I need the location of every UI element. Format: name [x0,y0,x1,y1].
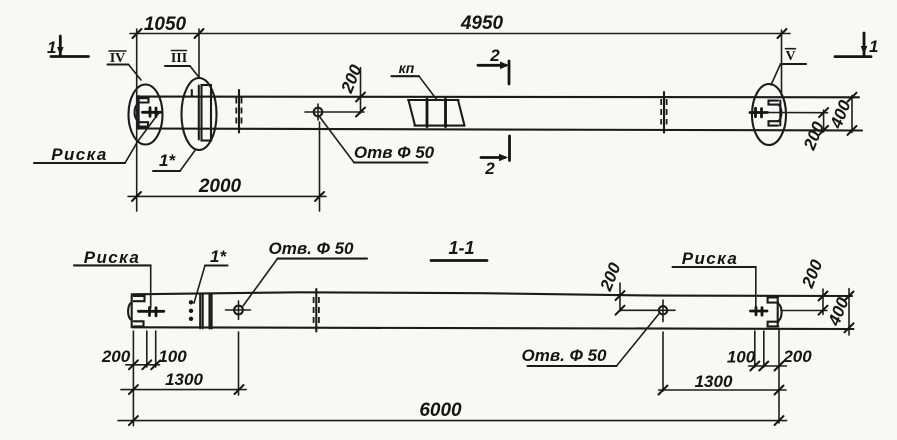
riska mark right (section) [751,310,768,313]
joint line (section) [315,289,317,332]
svg-text:Отв. Ф 50: Отв. Ф 50 [269,239,355,258]
riska mark left (plan) [143,111,161,114]
dimension 6000 [118,420,787,422]
svg-text:кп: кп [399,60,415,76]
riska extension line right (plan) [768,112,828,114]
svg-text:1: 1 [47,38,56,57]
dimension 2000 [128,195,326,197]
detail ellipse IV [129,85,163,145]
svg-text:2000: 2000 [198,176,242,197]
svg-text:1*: 1* [210,247,227,266]
joint line left (plan) [238,90,240,133]
dimension 1300 left [121,389,246,391]
svg-text:400: 400 [826,97,855,132]
hole Otv F50 (plan) [314,108,323,117]
svg-text:V: V [785,49,795,64]
detail ellipse III [182,78,217,150]
dimension 400 far right (section) [848,289,850,335]
section mark 1 left [51,55,89,58]
hole Otv F50 left (section) [234,306,243,315]
svg-text:2: 2 [484,159,495,178]
detail ellipse V [752,84,786,145]
left top flange [139,98,149,102]
right channel bracket arc [778,104,782,121]
left bottom flange [139,122,148,126]
svg-text:200: 200 [337,62,366,97]
right end fitting (section) [768,297,778,302]
beam top edge (section) [132,292,852,296]
svg-text:Риска: Риска [51,145,107,164]
right top flange [769,101,779,105]
hole extension line down [319,122,321,211]
svg-text:100: 100 [727,348,756,367]
left top flange (section) [134,296,145,301]
riska mark right (plan) [750,111,768,114]
svg-text:200: 200 [798,257,827,292]
svg-text:Риска: Риска [682,249,738,268]
joint line right (plan) [663,92,665,133]
svg-text:1*: 1* [159,151,176,170]
svg-text:1300: 1300 [165,370,203,389]
section mark 1 right [835,55,871,58]
riska extension right (section) [781,310,827,312]
left channel bracket arc (section) [128,303,132,320]
lifting loop kp [408,99,459,101]
bottom-right dimensions 100/200 [754,331,756,367]
weld tick [191,90,193,97]
node label III [172,50,187,52]
svg-text:Отв Ф 50: Отв Ф 50 [354,143,435,162]
svg-text:200: 200 [782,347,812,366]
svg-text:200: 200 [101,347,131,366]
left channel bracket arc [135,104,139,121]
beam left end plate (section) [131,296,133,327]
svg-text:1300: 1300 [695,372,733,391]
svg-text:1050: 1050 [144,14,187,35]
beam top edge (plan) [139,96,860,99]
beam bottom edge (plan) [139,129,863,131]
node label V [786,48,796,50]
svg-text:6000: 6000 [419,400,462,421]
svg-text:1: 1 [869,37,878,56]
right bottom flange [769,121,779,125]
dimension 1300 right [659,389,786,391]
dimension 200 vertical (plan hole) [360,68,362,113]
dimension 200 right (plan) [823,110,825,132]
riska mark left (section) [139,310,164,313]
left bottom flange (section) [134,321,144,326]
dimension 200 far right (section) [822,289,824,315]
plate lines 1* [199,295,201,329]
svg-text:Риска: Риска [84,248,140,267]
node label IV [109,50,126,52]
svg-text:4950: 4950 [460,13,504,34]
svg-text:III: III [171,51,187,66]
section mark 2 top [478,64,506,67]
bottom-left dimensions 200/100 [132,331,134,426]
svg-text:Отв. Ф 50: Отв. Ф 50 [522,346,608,365]
beam bottom edge (section) [132,327,854,329]
right end plate (plan) [779,101,781,126]
section mark 2 bottom [508,136,511,161]
end diaphragm plate [202,85,212,141]
beam left end plate [138,96,140,129]
dimension 400 right (plan) [851,95,853,132]
rivet dots [189,300,193,304]
svg-text:100: 100 [158,347,187,366]
dimension line 1050/4950 [130,33,790,35]
svg-text:2: 2 [489,46,500,65]
dimension 200 mid (section) [619,283,621,311]
svg-text:1-1: 1-1 [448,238,474,258]
hole Otv F50 right (section) [659,306,667,314]
